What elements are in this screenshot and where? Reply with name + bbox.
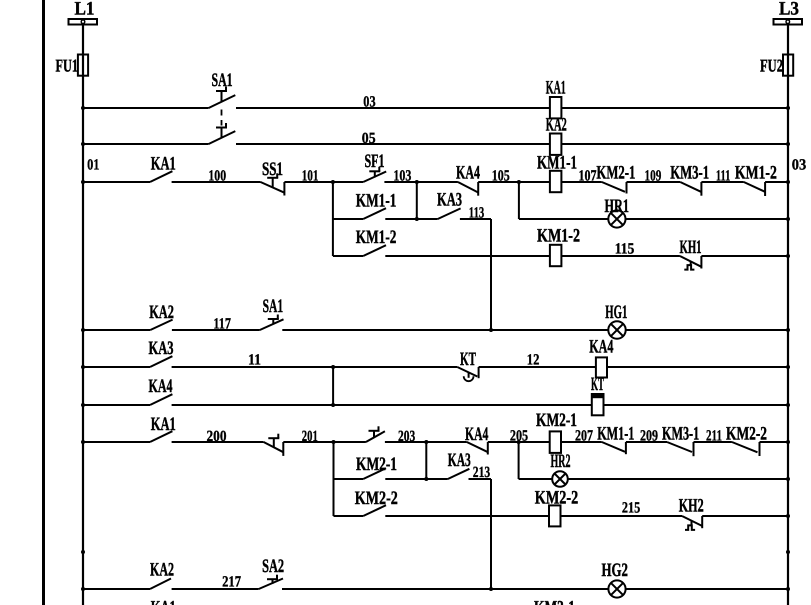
svg-text:105: 105 <box>492 167 510 184</box>
svg-text:11: 11 <box>248 351 261 368</box>
wire lamp branch HR2 <box>519 478 553 480</box>
wire node 215 <box>561 515 683 517</box>
wire 103 to KA4 <box>417 181 458 183</box>
svg-text:109: 109 <box>645 167 662 184</box>
wire node 107 <box>561 181 601 183</box>
wire rung8 to lamp <box>282 588 608 590</box>
wire node 203 <box>385 441 426 443</box>
wire node 207 <box>561 441 602 443</box>
pushbutton start (NO rung7) <box>366 431 385 442</box>
switch SA1 pole 2 <box>209 131 236 144</box>
coil KA2 <box>550 134 562 155</box>
svg-text:KM1-2: KM1-2 <box>735 163 777 184</box>
coil KM1-1 <box>550 171 562 192</box>
svg-text:KM1-2: KM1-2 <box>537 226 580 247</box>
wire right rail L3 <box>787 25 789 605</box>
svg-text:KM2-1: KM2-1 <box>596 163 635 184</box>
svg-text:KA2: KA2 <box>546 115 567 136</box>
wire vertical 113 down <box>490 219 492 330</box>
wire node 109 <box>627 181 681 183</box>
svg-text:FU2: FU2 <box>760 55 783 75</box>
wire node 100 <box>172 181 261 183</box>
lamp HR2 <box>552 471 568 487</box>
svg-text:200: 200 <box>207 428 227 445</box>
wire hold to node 103 <box>385 218 417 220</box>
svg-text:KM2-2: KM2-2 <box>355 488 398 509</box>
svg-text:L3: L3 <box>779 0 799 20</box>
svg-text:KT: KT <box>591 374 604 395</box>
wire KH2 to rail <box>702 515 788 517</box>
svg-text:SA1: SA1 <box>212 70 233 91</box>
wire HR1 to rail <box>626 218 789 220</box>
svg-text:KM3-1: KM3-1 <box>670 163 709 184</box>
wire node 217 <box>172 588 259 590</box>
wire 203 to KA4 <box>426 441 467 443</box>
coil KM1-2 <box>550 245 562 266</box>
svg-text:217: 217 <box>222 573 241 590</box>
svg-text:FU1: FU1 <box>56 55 79 75</box>
wire KA4 coil to rail <box>607 366 788 368</box>
svg-text:203: 203 <box>398 428 415 445</box>
svg-text:KA4: KA4 <box>589 337 614 358</box>
svg-text:KM1-1: KM1-1 <box>537 152 577 173</box>
wire to coil KM2-2 <box>385 515 549 517</box>
wire branch vertical 201 <box>333 442 335 516</box>
svg-text:KH2: KH2 <box>679 496 704 517</box>
wire rung7 to rail <box>760 441 789 443</box>
wire HR2 to rail <box>568 478 788 480</box>
wire vertical 213 down <box>490 479 492 589</box>
wire node 209 <box>626 441 667 443</box>
wire node 111 <box>701 181 743 183</box>
node left rail spare <box>81 550 85 554</box>
svg-text:KM3-1: KM3-1 <box>534 598 575 605</box>
wire node 200 <box>172 441 264 443</box>
wire rung6 left <box>81 403 85 407</box>
svg-text:KM1-1: KM1-1 <box>356 191 397 212</box>
wire vertical rung5-rung6 <box>332 367 334 405</box>
wire KH1 to rail <box>701 255 788 257</box>
wire rung7 left <box>81 440 85 444</box>
wire branch vertical 101 <box>332 182 334 256</box>
svg-text:KA3: KA3 <box>437 190 462 211</box>
wire HG2 to rail <box>626 588 788 590</box>
wire vertical 103 <box>416 182 418 219</box>
svg-text:KA3: KA3 <box>448 450 471 471</box>
svg-text:211: 211 <box>706 428 722 445</box>
svg-text:03: 03 <box>363 93 375 110</box>
wire rung6 to KT coil <box>172 404 592 406</box>
wire node 113 <box>460 218 491 220</box>
svg-text:HR1: HR1 <box>605 196 630 217</box>
wire hold to node 203 <box>385 478 426 480</box>
coil KA4 <box>596 357 607 377</box>
wire node 11 <box>172 366 458 368</box>
wire rung8 left <box>81 587 85 591</box>
svg-text:SF1: SF1 <box>365 151 385 172</box>
wire node 211 <box>694 441 732 443</box>
svg-text:12: 12 <box>527 351 540 368</box>
svg-text:215: 215 <box>622 500 640 517</box>
svg-text:L1: L1 <box>75 0 95 20</box>
svg-text:103: 103 <box>393 167 411 184</box>
wire node 12 <box>479 366 596 368</box>
svg-text:213: 213 <box>473 464 490 481</box>
wire node 101 <box>284 181 333 183</box>
wire node 117 <box>172 329 260 331</box>
svg-text:SA2: SA2 <box>262 556 284 577</box>
wire node 115 <box>561 255 680 257</box>
wire node 213 <box>469 478 492 480</box>
wire rung4 to lamp <box>282 329 608 331</box>
lamp HG2 <box>608 580 625 597</box>
svg-text:209: 209 <box>640 428 658 445</box>
wire 105 to coil <box>519 181 550 183</box>
svg-text:KA1: KA1 <box>151 598 176 605</box>
svg-text:201: 201 <box>302 428 318 445</box>
coil KM2-1 <box>550 431 561 453</box>
wire rung3 to rail node 03 <box>765 181 788 183</box>
wire node 105 <box>478 181 519 183</box>
wire KT coil to rail <box>604 404 789 406</box>
svg-text:HG2: HG2 <box>602 560 629 581</box>
wire rung4 left <box>81 328 85 332</box>
pushbutton stop (NC rung7) <box>264 442 284 452</box>
wire to coil KM1-2 <box>385 255 550 257</box>
svg-text:KA1: KA1 <box>546 78 566 99</box>
svg-text:KM2-2: KM2-2 <box>535 488 578 509</box>
svg-text:KT: KT <box>460 349 476 370</box>
lamp HR1 <box>608 210 625 227</box>
svg-text:117: 117 <box>213 315 231 332</box>
wire HG1 to rail <box>626 329 788 331</box>
svg-text:113: 113 <box>469 204 485 221</box>
wire vertical 205 to lamp <box>518 442 520 479</box>
wire vertical 203 <box>425 442 427 479</box>
wire rung2 left <box>81 142 85 146</box>
svg-text:HR2: HR2 <box>551 451 571 472</box>
svg-text:KA4: KA4 <box>149 376 173 397</box>
svg-text:107: 107 <box>579 167 597 184</box>
svg-text:KM2-1: KM2-1 <box>536 410 577 431</box>
coil KA1 <box>550 97 562 118</box>
wire 201 to start button <box>334 441 366 443</box>
svg-text:KA2: KA2 <box>150 560 174 581</box>
svg-text:KA4: KA4 <box>456 163 480 184</box>
wire 101 to SF1 <box>333 181 363 183</box>
wire vertical 105 to lamp <box>518 182 520 219</box>
svg-text:111: 111 <box>716 167 731 184</box>
svg-text:HG1: HG1 <box>605 302 627 323</box>
node right rail spare <box>786 550 790 554</box>
svg-text:KH1: KH1 <box>680 237 702 258</box>
svg-text:01: 01 <box>87 157 99 174</box>
wire node 201 <box>283 441 333 443</box>
svg-text:KM1-2: KM1-2 <box>356 227 397 248</box>
svg-text:SA1: SA1 <box>263 296 284 317</box>
svg-text:101: 101 <box>302 167 319 184</box>
wire rung1 left <box>81 106 85 110</box>
wire node 205 <box>488 441 550 443</box>
svg-text:03: 03 <box>792 156 807 173</box>
svg-text:05: 05 <box>362 130 376 147</box>
wire lamp branch HR1 <box>519 218 608 220</box>
wire rung2 node 05 <box>236 143 788 145</box>
svg-text:100: 100 <box>208 167 226 184</box>
svg-text:KA3: KA3 <box>149 338 174 359</box>
wire rung3 seg1 <box>81 180 85 184</box>
wire left rail L1 <box>82 25 84 605</box>
svg-text:115: 115 <box>615 240 635 257</box>
wire node 103 <box>384 181 416 183</box>
lamp HG1 <box>608 321 625 338</box>
svg-text:207: 207 <box>575 428 593 445</box>
wire rung1 node 03 <box>236 107 788 109</box>
switch SA1 linkage <box>221 110 223 126</box>
wire rung5 left <box>81 365 85 369</box>
coil KM2-2 <box>549 505 561 526</box>
